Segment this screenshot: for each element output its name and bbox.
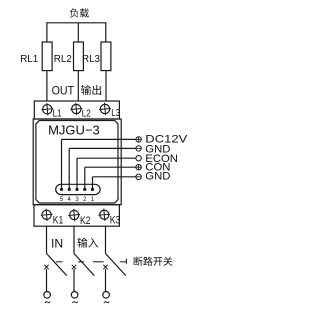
terminal L3 screw symbol [100, 104, 109, 113]
label duan (breaker char 1) [134, 257, 143, 266]
node DC12V terminal circle [136, 137, 141, 142]
label shu (input char 1) [77, 238, 87, 248]
wire: K2 to switch S2 [73, 226, 75, 253]
wire: RL2 to L2 [77, 71, 79, 101]
module inner chamfered box [36, 121, 118, 204]
node GND terminal circle [136, 146, 141, 151]
label guan (breaker char 4) [163, 257, 172, 266]
wire: bus drop to RL1 [46, 22, 48, 42]
svg-text:GND: GND [145, 171, 170, 183]
svg-text:L3: L3 [111, 108, 120, 119]
connector pin dot 1 [91, 188, 94, 191]
switch linkage dash [93, 261, 104, 263]
connector J1 oval [56, 184, 100, 194]
resistor RL2 [74, 42, 84, 71]
source terminal 2 tilde mark [72, 302, 77, 303]
terminal K1 screw symbol [42, 210, 51, 219]
connector pin dot 5 [60, 188, 63, 191]
switch S2 contact x [72, 265, 76, 269]
svg-text:K1: K1 [53, 215, 64, 227]
label lu (breaker char 2) [143, 257, 152, 266]
resistor RL1 [42, 42, 52, 71]
wire: switch S3 to source [105, 269, 107, 292]
wire: K1 to switch S1 [46, 226, 48, 253]
connector pin dot 2 [83, 188, 86, 191]
switch linkage dash [120, 261, 127, 263]
wire: pin 4 riser [68, 148, 70, 189]
label ru (input char 2) [88, 238, 98, 248]
source terminal 3 circle [103, 292, 110, 299]
svg-text:L1: L1 [53, 109, 62, 120]
wire: bus drop to RL2 [77, 23, 79, 42]
resistor RL3 [101, 42, 111, 71]
wire: pin 5 to DC12V [62, 138, 136, 140]
switch S1 blade [47, 254, 67, 276]
wire: switch S2 to source [73, 269, 75, 292]
wire: pin 1 to GND [93, 176, 136, 178]
label fu (load char 1) [70, 8, 79, 17]
source terminal 3 tilde mark [104, 302, 109, 303]
wire: pin 3 to ECON [77, 157, 136, 159]
svg-text:K3: K3 [110, 215, 121, 227]
terminal K2 screw symbol [70, 210, 79, 219]
svg-text:RL1: RL1 [20, 53, 38, 65]
wire: pin 5 riser [61, 139, 63, 189]
source terminal 1 tilde mark [45, 302, 50, 303]
node CON terminal circle [136, 165, 141, 170]
wire: pin 1 riser [92, 177, 94, 190]
label chu (output char 2) [92, 85, 101, 95]
source terminal 2 circle [71, 292, 78, 299]
label shu (output char 1) [81, 85, 91, 95]
L terminal strip box [34, 101, 119, 119]
switch linkage dash [56, 261, 63, 263]
switch S1 contact x [44, 265, 48, 269]
svg-text:IN: IN [51, 237, 63, 251]
node ECON terminal circle [136, 156, 141, 161]
switch linkage dash [78, 261, 84, 263]
wire: bus drop to RL3 [105, 22, 107, 42]
terminal K3 screw symbol [100, 210, 109, 219]
wire: pin 2 to CON [85, 166, 136, 168]
source terminal 1 circle [44, 292, 51, 299]
switch S3 contact x [103, 265, 107, 269]
wire: top bus [47, 22, 106, 24]
svg-text:OUT: OUT [52, 84, 75, 98]
module outer body box [33, 119, 121, 205]
svg-text:L2: L2 [82, 109, 91, 120]
label zai (load char 2) [80, 8, 89, 17]
wire: pin 4 to GND [69, 147, 136, 149]
node GND terminal circle [136, 174, 141, 179]
switch S3 blade [106, 254, 126, 276]
wire: pin 2 riser [84, 167, 86, 189]
connector pin dot 4 [68, 188, 71, 191]
svg-text:RL3: RL3 [82, 53, 100, 65]
svg-text:MJGU−3: MJGU−3 [48, 122, 100, 137]
terminal L2 screw symbol [72, 104, 81, 113]
wire: switch S1 to source [46, 269, 48, 292]
wire: pin 3 riser [76, 158, 78, 189]
wire: K3 to switch S3 [105, 226, 107, 253]
label kai (breaker char 3) [153, 257, 162, 266]
svg-text:K2: K2 [80, 215, 91, 227]
wire: RL1 to L1 [46, 71, 48, 101]
connector pin dot 3 [75, 188, 78, 191]
terminal L1 screw symbol [43, 105, 52, 114]
K terminal strip box [34, 205, 119, 227]
svg-text:RL2: RL2 [54, 53, 72, 65]
wire: RL3 to L3 [105, 71, 107, 101]
linkage end bar [125, 259, 127, 264]
switch S2 blade [74, 254, 94, 276]
